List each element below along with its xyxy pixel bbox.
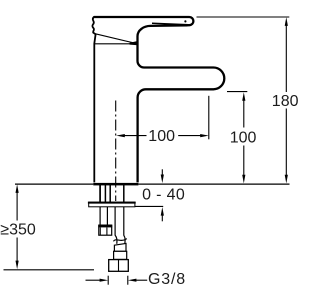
dimension >=350 arrow down [16,261,19,270]
hose crimp sleeve lower [114,251,127,259]
dimension 100 horizontal arrow left [116,134,125,137]
mounting flange plate [89,202,135,207]
dimension 0-40 lower arrow shaft [161,214,163,222]
body and spout outline (notch, spout, right edge) [138,25,225,182]
extension line below flange [135,205,164,207]
svg-text:G3/8: G3/8 [148,271,186,288]
dimension 100 vertical line upper [243,99,245,128]
svg-text:≥350: ≥350 [0,222,36,239]
dimension 180 line upper [285,24,287,92]
threaded rod line left [99,207,101,225]
shank vertical line 3 [109,185,111,202]
mounting nut facet line right [106,228,108,236]
hose kink wavy break [113,239,126,242]
dimension >=350 line lower [16,238,18,263]
G3/8 dimension tick right [127,276,129,285]
svg-text:180: 180 [272,93,299,110]
G3/8 nut facet line [118,260,120,272]
deck line right [138,183,289,185]
dimension 180 arrow up [285,17,288,26]
extension line from spout outlet [227,91,247,93]
svg-text:100: 100 [148,128,175,145]
vertical extension line at spout outlet [208,96,210,140]
hose line left [114,207,116,236]
shank vertical line 1 [99,185,101,202]
mounting nut top cap thick edge [98,225,112,227]
dimension 0-40 upper arrow down [161,175,164,184]
hose end reference line [4,269,95,271]
vertical dashed centerline of body [115,101,117,202]
dimension 100 horizontal arrow right [200,134,209,137]
mounting nut [99,225,112,235]
body left edge with wavy lever grip [92,17,95,183]
mounting nut facet line left [99,228,101,236]
shank vertical line 4 [123,185,125,202]
dimension 100 vertical arrow up [242,92,245,101]
hose kink right line [124,235,125,244]
dimension 0-40 upper arrow shaft [161,169,163,176]
body cap top line [95,43,136,45]
dimension 100 horizontal line left [122,135,147,137]
joint wedge blob [130,41,138,45]
faucet lever handle top outline [94,17,193,25]
hose crimp sleeve upper [114,243,126,251]
dimension 100 horizontal line right [178,135,203,137]
hose line right [123,207,125,236]
lever underside inner edge line [152,23,189,24]
G3/8 dimension right arrow [128,279,137,282]
dimension 100 vertical arrow down [242,175,245,184]
G3/8 dimension right shaft [135,279,147,281]
dimension >=350 arrow up [16,184,19,193]
shank vertical line 2 [104,185,106,202]
G3/8 dimension left arrow [100,279,109,282]
G3/8 hose end nut [109,260,129,272]
dimension 0-40 lower arrow up [161,207,164,216]
dimension 100 vertical line lower [243,146,245,178]
mounting flange top thick edge [88,202,136,204]
body bottom thick base [93,183,138,186]
G3/8 dimension left shaft [86,279,102,281]
dimension 180 arrow down [285,175,288,184]
G3/8 dimension tick left [107,276,109,285]
svg-text:0 - 40: 0 - 40 [142,186,185,203]
dimension >=350 line upper [16,191,18,221]
dimension 180 line lower [285,109,287,178]
lever dot detail [184,20,186,22]
hose kink left line [115,235,117,244]
deck line left [15,183,93,185]
svg-text:100: 100 [230,130,257,147]
threaded rod line right [106,207,108,225]
extension line from lever top [197,16,290,18]
lever underside slanted joint line [96,34,137,44]
